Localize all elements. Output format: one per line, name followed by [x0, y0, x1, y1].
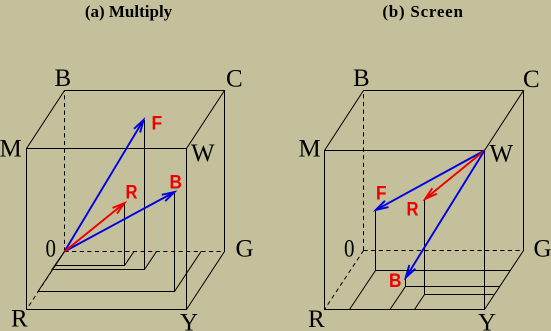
svg-text:B: B	[170, 173, 183, 194]
svg-text:(b) Screen: (b) Screen	[382, 2, 463, 21]
svg-text:M: M	[0, 136, 22, 163]
wire right top face M-B-C-W	[325, 91, 524, 151]
wire dashed 0-R right	[325, 251, 364, 310]
vector B (a) blue arrow	[65, 192, 175, 252]
wire dashed 0-G	[65, 251, 225, 253]
svg-text:Y: Y	[180, 310, 198, 331]
wire left right face C-G-Y	[187, 91, 225, 310]
svg-text:F: F	[152, 114, 163, 135]
wire F drop line	[144, 120, 146, 270]
svg-text:0: 0	[46, 236, 57, 263]
svg-text:R: R	[11, 306, 28, 331]
node R shadow box (a)	[55, 203, 134, 266]
wire right right face C-G-Y	[485, 91, 524, 310]
wire right front face M-W-Y-R	[325, 151, 485, 310]
vector R (a) red arrow	[65, 203, 125, 252]
wire dashed 0-G right	[364, 250, 524, 252]
wire R drop line right	[424, 200, 426, 295]
svg-text:M: M	[299, 136, 321, 163]
wire left top face M-B-C-W	[27, 91, 225, 149]
svg-text:B: B	[389, 271, 402, 292]
wire F drop line right	[375, 210, 377, 271]
svg-text:R: R	[308, 306, 325, 331]
svg-text:0: 0	[344, 236, 355, 263]
node B shadow box (b)	[390, 278, 500, 310]
svg-text:(a) Multiply: (a) Multiply	[85, 2, 173, 21]
vector F (b) blue arrow	[376, 151, 485, 211]
svg-text:C: C	[226, 66, 243, 93]
svg-text:W: W	[191, 140, 215, 167]
svg-text:G: G	[236, 236, 254, 263]
svg-text:R: R	[126, 183, 138, 204]
svg-text:W: W	[490, 141, 514, 168]
node F shadow box (b)	[350, 210, 511, 310]
wire dashed 0-B right	[363, 91, 365, 251]
wire B drop line right	[405, 278, 407, 287]
vector R (b) red arrow	[425, 151, 485, 200]
svg-text:G: G	[534, 236, 551, 263]
svg-text:C: C	[523, 66, 540, 93]
node R shadow box (b)	[415, 200, 494, 310]
wire left front face M-W-Y-R	[27, 149, 187, 310]
wire dashed 0-B	[64, 91, 66, 252]
vector B (b) blue arrow	[406, 151, 485, 278]
svg-text:R: R	[407, 200, 419, 221]
svg-text:Y: Y	[478, 310, 496, 331]
node F shadow box (a)	[52, 120, 157, 270]
wire R drop line	[124, 203, 126, 266]
svg-text:F: F	[376, 184, 387, 205]
svg-text:B: B	[55, 65, 72, 92]
node B shadow box (a)	[38, 192, 201, 292]
wire dashed 0-R	[27, 252, 65, 310]
svg-text:B: B	[353, 65, 370, 92]
vector F (a) blue arrow	[65, 120, 144, 252]
wire B drop line	[174, 192, 176, 292]
